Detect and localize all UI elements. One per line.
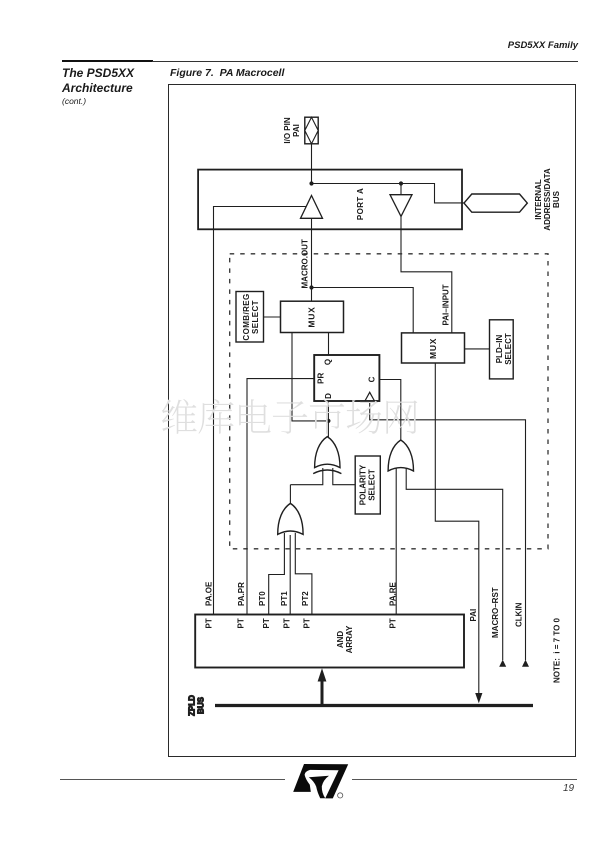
wire comb/reg select to mux bbox=[264, 316, 281, 318]
arrowhead MACRO-RST bbox=[499, 660, 506, 667]
polarity select box bbox=[355, 456, 380, 514]
wire OR-1 input PT2 bbox=[295, 533, 312, 615]
figure frame bbox=[168, 84, 576, 757]
svg-text:INTERNALADDRESS/DATABUS: INTERNALADDRESS/DATABUS bbox=[534, 168, 561, 231]
svg-text:PT2: PT2 bbox=[301, 591, 310, 606]
svg-text:MUX: MUX bbox=[428, 338, 438, 359]
wire pin to port A bbox=[311, 144, 313, 184]
svg-text:PT: PT bbox=[282, 618, 291, 628]
internal address/data bus connector bbox=[464, 194, 527, 212]
svg-text:PAI: PAI bbox=[469, 609, 478, 622]
svg-text:I/O PINPAI: I/O PINPAI bbox=[283, 117, 301, 143]
header rule thin segment bbox=[152, 61, 578, 62]
svg-text:PT: PT bbox=[237, 618, 246, 628]
OR gate G3 product terms bbox=[278, 503, 303, 534]
wire mux U2 output PAi to ZPLD bus bbox=[435, 363, 479, 695]
svg-text:Q: Q bbox=[324, 359, 333, 365]
footer rule left bbox=[60, 779, 285, 780]
svg-text:D: D bbox=[324, 393, 333, 399]
sidebar cont bbox=[62, 96, 86, 106]
watermark bbox=[162, 399, 417, 434]
wire mux to flip-flop Q bbox=[328, 333, 330, 356]
svg-text:PT0: PT0 bbox=[258, 591, 267, 606]
wire XOR-1 right input from polarity select bbox=[333, 468, 355, 485]
svg-text:PT: PT bbox=[388, 618, 397, 628]
wire mux U2 to PLD-in select bbox=[465, 348, 490, 350]
svg-text:POLARITYSELECT: POLARITYSELECT bbox=[359, 464, 377, 505]
macrocell dashed boundary bbox=[230, 254, 548, 549]
node junction above input buffer bbox=[399, 181, 403, 185]
node D junction bbox=[326, 419, 330, 423]
svg-text:PT: PT bbox=[204, 618, 213, 628]
header rule thick segment bbox=[62, 60, 153, 63]
output buffer triangle bbox=[301, 196, 323, 219]
wire OR-1 input PT0 bbox=[269, 533, 285, 615]
node macro out junction bbox=[309, 285, 313, 289]
svg-text:ZPLDBUS: ZPLDBUS bbox=[188, 695, 206, 716]
page number bbox=[563, 783, 574, 794]
PLD input mux U2 bbox=[402, 333, 465, 363]
svg-text:NOTE: i = 7 TO 0: NOTE: i = 7 TO 0 bbox=[553, 617, 562, 683]
figure caption bbox=[170, 67, 284, 79]
sidebar title bbox=[62, 66, 134, 95]
svg-text:PLD–INSELECT: PLD–INSELECT bbox=[495, 333, 513, 365]
wire flip-flop C to clear OR gate bbox=[379, 380, 400, 441]
wire flip-flop D down to XOR bbox=[327, 401, 329, 437]
AND array box bbox=[195, 615, 464, 668]
Port A box bbox=[198, 170, 462, 230]
svg-text:PA.RE: PA.RE bbox=[389, 581, 398, 606]
flip-flop box bbox=[314, 355, 379, 401]
wire node to input buffer bbox=[400, 184, 402, 195]
svg-text:PR: PR bbox=[316, 373, 325, 384]
ZPLD bus bbox=[215, 704, 533, 707]
comb/reg select box bbox=[236, 292, 264, 343]
wire input buffer to PLD-in mux PAI-INPUT bbox=[401, 216, 452, 333]
svg-text:CLKIN: CLKIN bbox=[514, 602, 523, 627]
wire XOR-1 left input from OR-1 bbox=[290, 468, 322, 485]
wire bus to AND array with arrow bbox=[318, 668, 327, 705]
svg-text:PORT A: PORT A bbox=[356, 188, 365, 220]
XOR gate G1 bbox=[313, 437, 341, 474]
OR gate G2 clear bbox=[388, 440, 413, 471]
header: family name bbox=[508, 40, 578, 51]
wire pin node to bus bbox=[312, 184, 465, 203]
svg-text:PAI–INPUT: PAI–INPUT bbox=[441, 284, 450, 325]
ST logo bbox=[293, 764, 348, 798]
output mux U1 bbox=[281, 301, 344, 332]
wire OR-2 right input from MACRO-RST bbox=[406, 468, 503, 660]
svg-text:C: C bbox=[367, 376, 376, 382]
wire OR-1 input PT1 bbox=[289, 535, 291, 615]
arrowhead CLKIN bbox=[522, 660, 529, 667]
ST logo registered mark bbox=[338, 793, 343, 798]
wire macro out to PLD-in mux bbox=[312, 288, 414, 333]
wire output buffer enable PA.OE bbox=[214, 207, 307, 615]
PT pin labels inside AND array bbox=[204, 618, 397, 628]
I/O pin symbol PAI bbox=[305, 117, 318, 144]
arrowhead PAi into bus bbox=[475, 693, 482, 703]
svg-text:ANDARRAY: ANDARRAY bbox=[336, 625, 354, 653]
wire OR-1 output up to XOR-1 bbox=[289, 485, 291, 504]
wire flip-flop PR to PA.PR bbox=[247, 379, 314, 615]
flip-flop clock edge marker bbox=[365, 392, 375, 401]
svg-text:PT1: PT1 bbox=[280, 591, 289, 606]
wire OR-2 left input PA.RE bbox=[395, 468, 397, 615]
svg-text:PT: PT bbox=[303, 618, 312, 628]
node junction on pin line bbox=[309, 181, 313, 185]
wire output buffer to macrocell mux MACRO.OUT bbox=[311, 218, 313, 301]
wire mux to D node bbox=[292, 333, 329, 421]
svg-text:COMB/REGSELECT: COMB/REGSELECT bbox=[242, 293, 260, 340]
svg-text:MACRO–RST: MACRO–RST bbox=[491, 587, 500, 638]
svg-text:MUX: MUX bbox=[307, 306, 317, 327]
wire flip-flop clock to CLKIN bbox=[370, 401, 526, 660]
PLD-in select box bbox=[490, 320, 514, 379]
input buffer triangle bbox=[390, 195, 412, 217]
svg-text:MACRO.OUT: MACRO.OUT bbox=[301, 239, 310, 288]
footer rule right bbox=[352, 779, 577, 780]
svg-text:PA.PR: PA.PR bbox=[237, 582, 246, 606]
svg-text:PT: PT bbox=[262, 618, 271, 628]
svg-text:PA.OE: PA.OE bbox=[204, 581, 213, 606]
